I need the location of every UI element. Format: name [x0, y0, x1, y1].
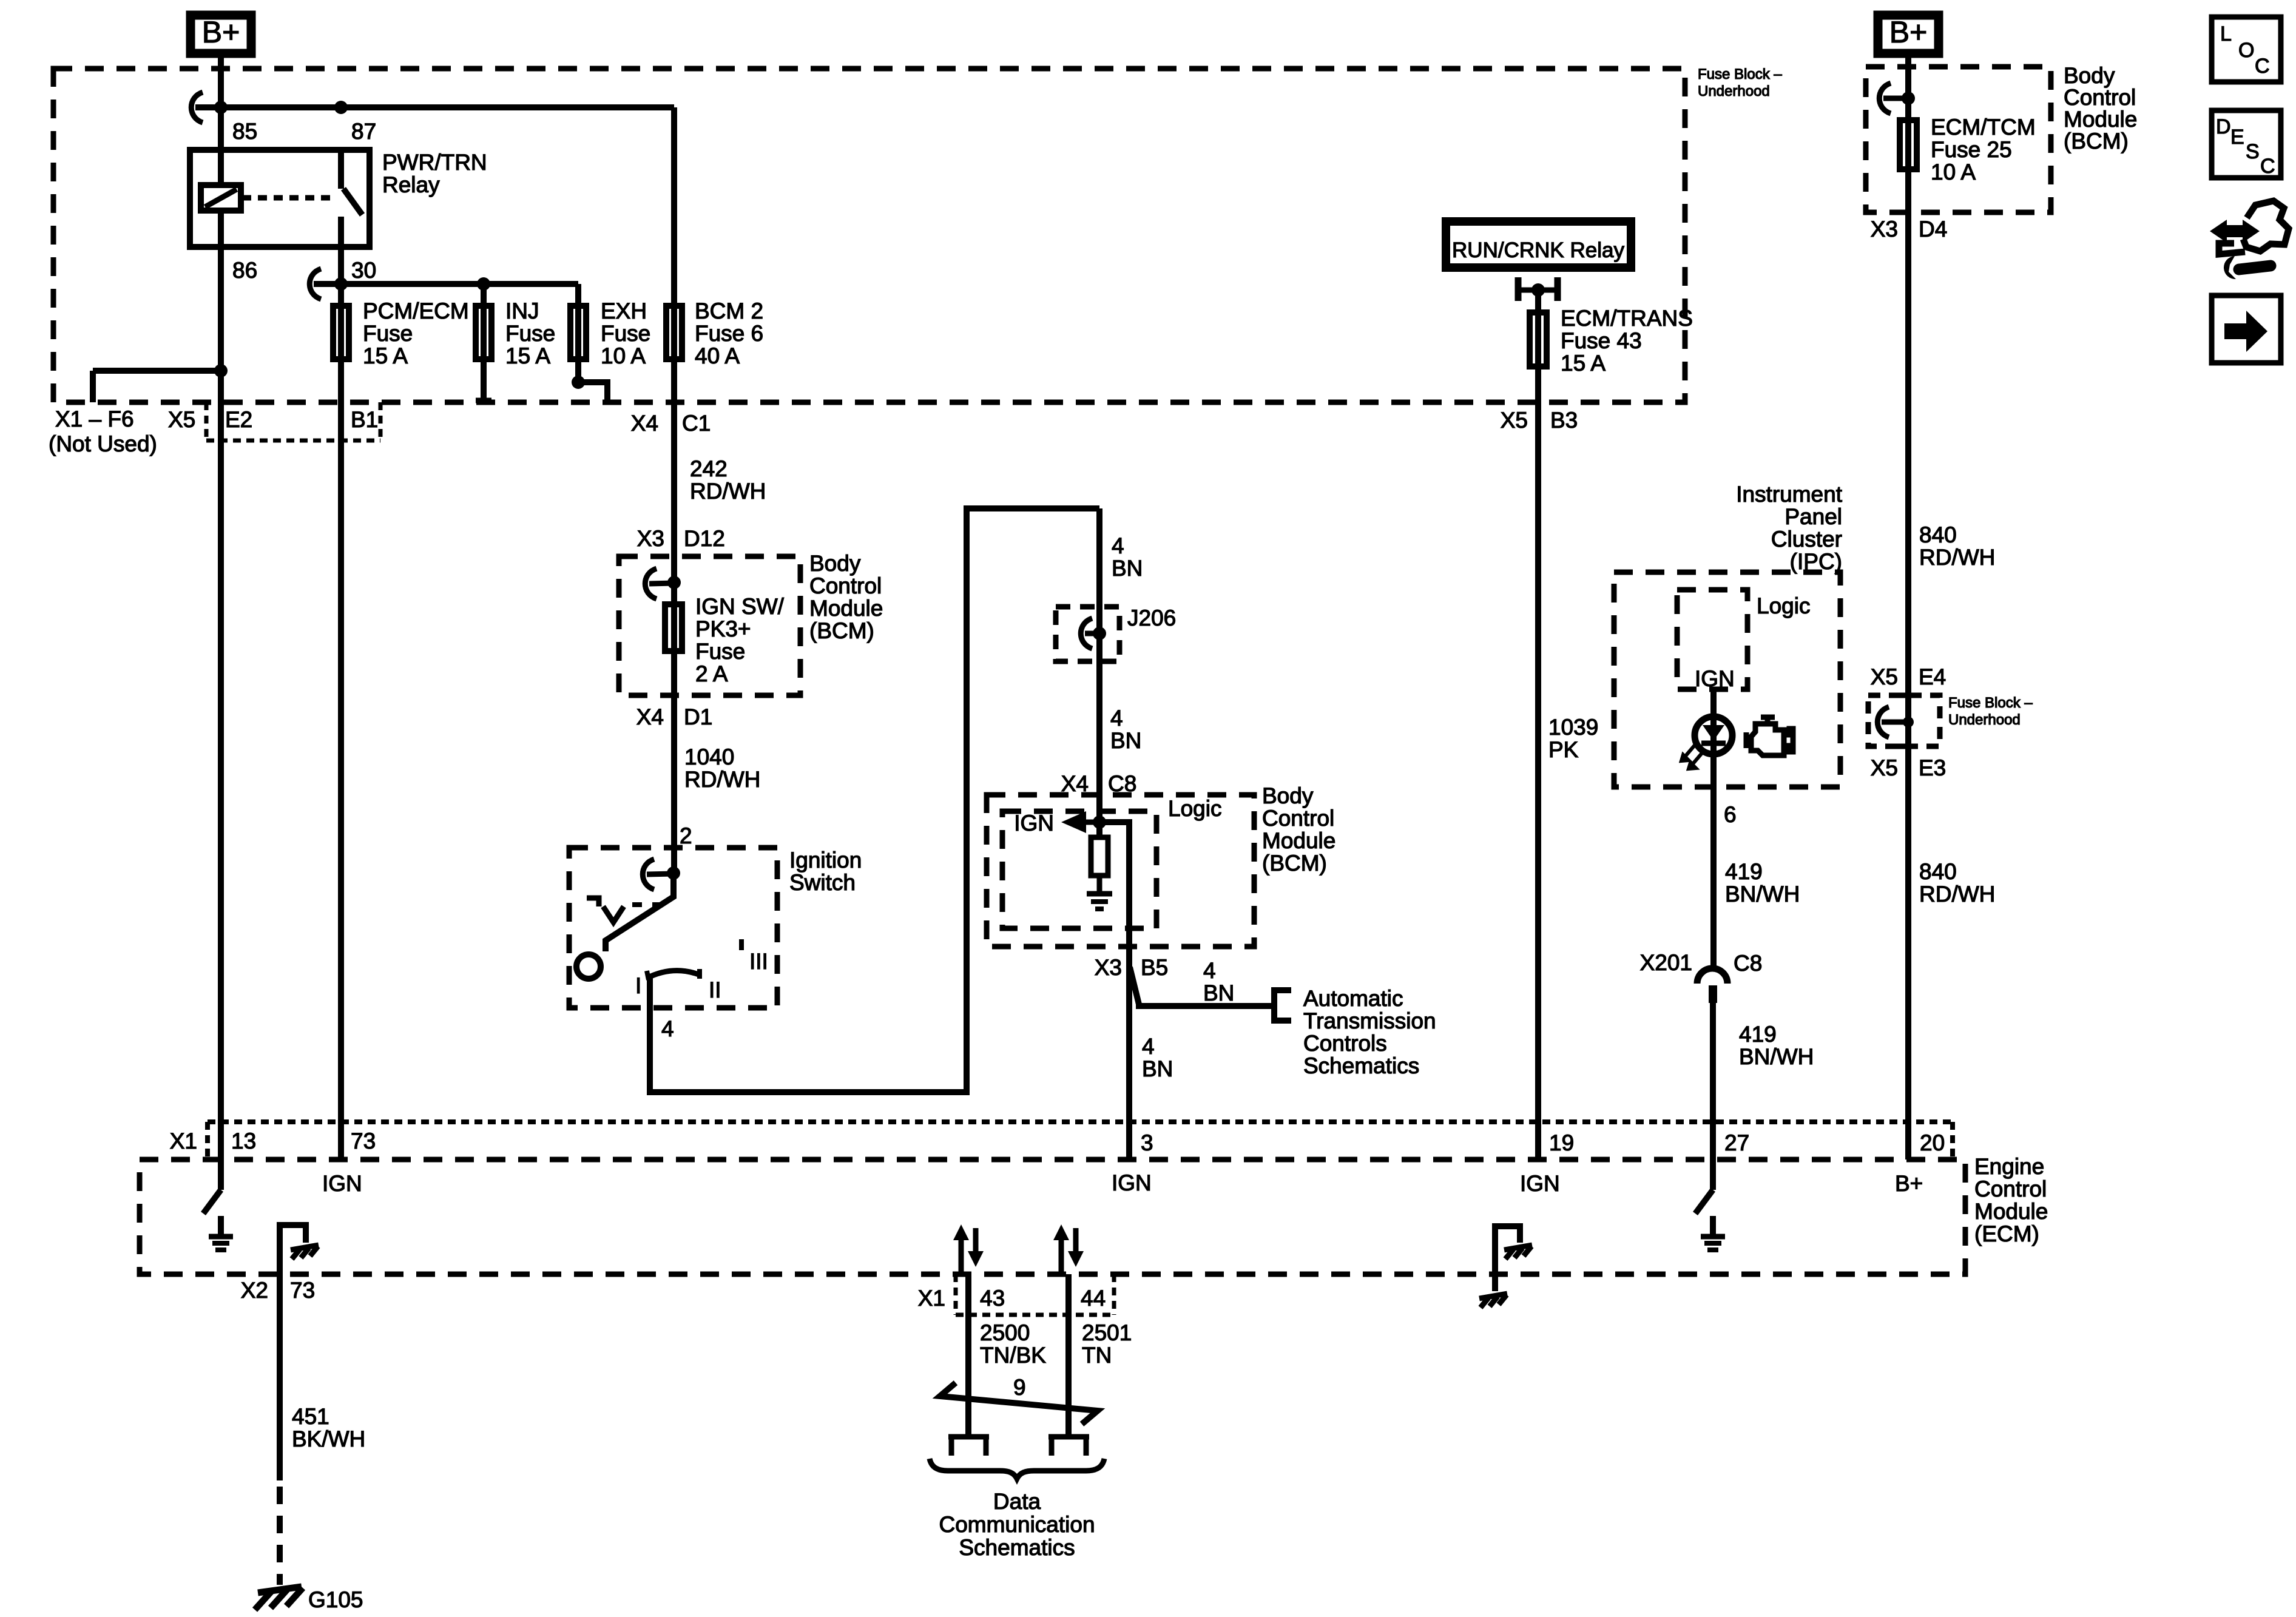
svg-text:X5: X5 [1871, 664, 1898, 689]
svg-text:4: 4 [1110, 706, 1123, 731]
svg-text:B5: B5 [1141, 955, 1168, 980]
svg-text:IGN: IGN [1112, 1170, 1152, 1195]
svg-text:PK3+: PK3+ [695, 616, 751, 641]
svg-text:419: 419 [1739, 1022, 1777, 1047]
svg-text:Control: Control [1262, 806, 1334, 831]
svg-text:BCM 2: BCM 2 [695, 299, 763, 323]
svg-text:Ignition: Ignition [789, 848, 862, 873]
svg-text:Fuse Block –: Fuse Block – [1948, 695, 2033, 711]
svg-text:Switch: Switch [789, 870, 856, 895]
svg-text:II: II [709, 977, 721, 1002]
svg-text:Control: Control [809, 573, 882, 598]
svg-text:Logic: Logic [1168, 796, 1221, 821]
svg-text:X3: X3 [637, 526, 664, 551]
svg-text:40 A: 40 A [695, 343, 740, 368]
svg-text:RUN/CRNK Relay: RUN/CRNK Relay [1452, 238, 1624, 262]
svg-text:X5: X5 [168, 407, 195, 432]
svg-text:2500: 2500 [980, 1320, 1030, 1345]
svg-text:L: L [2220, 22, 2232, 46]
svg-text:PK: PK [1548, 737, 1579, 762]
svg-text:(BCM): (BCM) [809, 618, 874, 643]
svg-text:X4: X4 [631, 411, 658, 436]
svg-text:C8: C8 [1734, 951, 1762, 976]
svg-text:RD/WH: RD/WH [684, 767, 760, 792]
svg-text:X201: X201 [1640, 950, 1692, 975]
svg-text:BK/WH: BK/WH [292, 1426, 365, 1451]
svg-text:Fuse 6: Fuse 6 [695, 321, 763, 346]
svg-text:E: E [2230, 126, 2244, 149]
svg-text:242: 242 [690, 456, 728, 481]
svg-text:15 A: 15 A [505, 343, 550, 368]
svg-text:Body: Body [809, 551, 861, 576]
svg-text:3: 3 [1141, 1130, 1153, 1155]
svg-text:4: 4 [1112, 533, 1124, 558]
svg-text:E4: E4 [1919, 664, 1946, 689]
svg-text:X5: X5 [1871, 755, 1898, 780]
svg-text:4: 4 [661, 1016, 674, 1041]
svg-text:PWR/TRN: PWR/TRN [382, 150, 487, 175]
svg-text:Module: Module [1974, 1199, 2048, 1224]
svg-text:Instrument: Instrument [1736, 482, 1843, 507]
svg-text:BN: BN [1112, 556, 1143, 581]
svg-text:86: 86 [232, 258, 257, 283]
svg-text:D4: D4 [1919, 217, 1947, 241]
svg-text:840: 840 [1919, 859, 1957, 884]
svg-text:2501: 2501 [1082, 1320, 1132, 1345]
svg-text:RD/WH: RD/WH [1919, 882, 1995, 906]
svg-text:(ECM): (ECM) [1974, 1221, 2039, 1246]
svg-text:TN/BK: TN/BK [980, 1343, 1046, 1368]
svg-text:C: C [2255, 55, 2270, 78]
svg-text:(BCM): (BCM) [2064, 129, 2129, 154]
svg-text:9: 9 [1013, 1375, 1026, 1400]
svg-text:RD/WH: RD/WH [1919, 545, 1995, 570]
svg-text:85: 85 [232, 119, 257, 144]
svg-text:43: 43 [980, 1286, 1005, 1311]
svg-text:Body: Body [2064, 63, 2115, 88]
svg-text:X3: X3 [1871, 217, 1898, 241]
svg-text:87: 87 [351, 119, 376, 144]
svg-text:O: O [2238, 39, 2254, 62]
svg-text:III: III [749, 949, 768, 974]
svg-text:Logic: Logic [1757, 593, 1810, 618]
svg-text:BN: BN [1203, 981, 1234, 1005]
svg-text:B1: B1 [351, 407, 378, 432]
svg-text:15 A: 15 A [1561, 351, 1606, 376]
svg-text:27: 27 [1724, 1130, 1749, 1155]
svg-text:IGN: IGN [322, 1171, 362, 1196]
svg-text:E3: E3 [1919, 755, 1946, 780]
svg-text:44: 44 [1081, 1286, 1106, 1311]
svg-text:J206: J206 [1127, 606, 1176, 630]
svg-text:Control: Control [2064, 85, 2136, 110]
svg-text:C: C [2260, 155, 2275, 178]
svg-text:I: I [635, 973, 641, 998]
svg-text:Body: Body [1262, 783, 1314, 808]
svg-text:S: S [2246, 140, 2260, 163]
svg-text:Engine: Engine [1974, 1154, 2044, 1179]
svg-text:D12: D12 [684, 526, 725, 551]
svg-text:Panel: Panel [1784, 504, 1842, 529]
svg-text:Module: Module [2064, 107, 2137, 132]
svg-text:Transmission: Transmission [1303, 1008, 1436, 1033]
svg-text:BN: BN [1110, 728, 1141, 753]
svg-text:30: 30 [351, 258, 376, 283]
svg-text:BN: BN [1142, 1056, 1173, 1081]
svg-text:B+: B+ [202, 15, 240, 49]
svg-text:Controls: Controls [1303, 1031, 1387, 1056]
svg-text:ECM/TRANS: ECM/TRANS [1561, 306, 1693, 331]
svg-text:15 A: 15 A [363, 343, 408, 368]
svg-text:19: 19 [1549, 1130, 1574, 1155]
svg-text:13: 13 [231, 1129, 256, 1153]
svg-text:419: 419 [1725, 859, 1763, 884]
svg-text:G105: G105 [308, 1587, 363, 1612]
svg-text:73: 73 [290, 1278, 315, 1303]
svg-text:B+: B+ [1889, 15, 1928, 49]
svg-text:Underhood: Underhood [1698, 83, 1770, 100]
svg-text:10 A: 10 A [601, 343, 646, 368]
svg-text:X1: X1 [918, 1286, 945, 1311]
svg-text:B+: B+ [1895, 1171, 1923, 1196]
svg-text:840: 840 [1919, 522, 1957, 547]
svg-text:IGN: IGN [1014, 811, 1054, 836]
svg-text:Schematics: Schematics [1303, 1053, 1419, 1078]
svg-text:IGN SW/: IGN SW/ [695, 594, 785, 619]
svg-text:Relay: Relay [382, 172, 440, 197]
svg-text:EXH: EXH [601, 299, 647, 323]
svg-text:2 A: 2 A [695, 661, 728, 686]
svg-text:IGN: IGN [1520, 1171, 1560, 1196]
svg-text:D1: D1 [684, 704, 712, 729]
svg-text:X3: X3 [1095, 955, 1122, 980]
svg-text:TN: TN [1082, 1343, 1112, 1368]
svg-text:Module: Module [1262, 828, 1335, 853]
svg-text:1040: 1040 [684, 744, 734, 769]
svg-text:INJ: INJ [505, 299, 539, 323]
svg-text:4: 4 [1142, 1034, 1155, 1059]
svg-text:X5: X5 [1501, 408, 1528, 433]
svg-text:Fuse 25: Fuse 25 [1931, 137, 2012, 162]
svg-text:2: 2 [680, 823, 692, 848]
svg-text:(Not Used): (Not Used) [49, 431, 157, 456]
svg-text:Cluster: Cluster [1771, 527, 1842, 552]
svg-text:Fuse: Fuse [363, 321, 413, 346]
svg-text:Fuse: Fuse [695, 639, 745, 664]
svg-text:Communication: Communication [939, 1512, 1095, 1537]
svg-text:Fuse 43: Fuse 43 [1561, 328, 1642, 353]
svg-text:IGN: IGN [1695, 666, 1735, 691]
svg-text:C1: C1 [682, 411, 711, 436]
svg-text:ECM/TCM: ECM/TCM [1931, 115, 2036, 140]
svg-text:Underhood: Underhood [1948, 712, 2021, 728]
svg-text:Automatic: Automatic [1303, 986, 1403, 1011]
svg-text:RD/WH: RD/WH [690, 479, 766, 504]
svg-text:X2: X2 [241, 1278, 268, 1303]
svg-text:Fuse Block –: Fuse Block – [1698, 66, 1782, 83]
svg-text:10 A: 10 A [1931, 160, 1976, 184]
svg-text:73: 73 [351, 1129, 376, 1153]
svg-text:Schematics: Schematics [959, 1535, 1075, 1560]
svg-text:6: 6 [1724, 802, 1737, 827]
svg-text:Data: Data [993, 1489, 1041, 1514]
svg-text:Module: Module [809, 596, 883, 621]
svg-text:(BCM): (BCM) [1262, 851, 1327, 876]
svg-text:BN/WH: BN/WH [1725, 882, 1800, 906]
svg-text:X4: X4 [636, 704, 664, 729]
svg-text:X1 – F6: X1 – F6 [55, 407, 134, 431]
svg-text:X1: X1 [170, 1129, 197, 1153]
svg-text:Control: Control [1974, 1176, 2047, 1201]
svg-text:Fuse: Fuse [601, 321, 650, 346]
svg-text:E2: E2 [225, 407, 252, 432]
svg-text:BN/WH: BN/WH [1739, 1044, 1814, 1069]
svg-text:Fuse: Fuse [505, 321, 555, 346]
svg-text:1039: 1039 [1548, 715, 1598, 740]
svg-text:4: 4 [1203, 958, 1216, 983]
svg-text:20: 20 [1920, 1130, 1945, 1155]
svg-text:PCM/ECM: PCM/ECM [363, 299, 469, 323]
svg-text:451: 451 [292, 1404, 329, 1429]
svg-text:D: D [2216, 115, 2231, 138]
svg-text:B3: B3 [1550, 408, 1578, 433]
